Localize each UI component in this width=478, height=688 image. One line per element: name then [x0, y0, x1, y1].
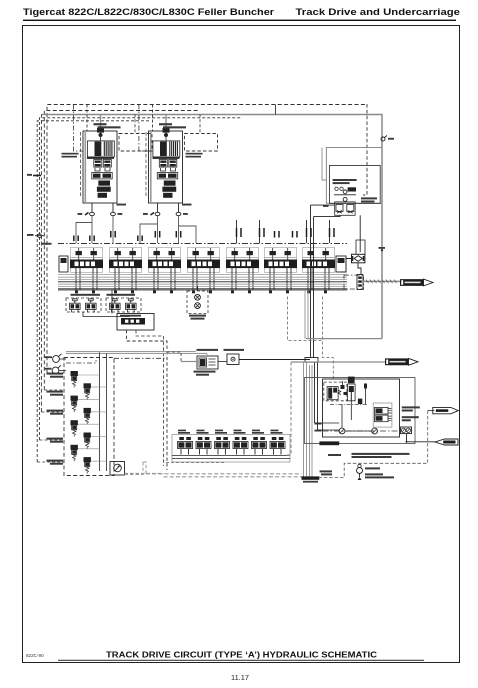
wire: dashed feed elbow	[167, 352, 181, 362]
pump outer enclosure	[305, 378, 416, 444]
wire: relief riser staple	[356, 240, 365, 254]
wire: dashed step at aux row bottom	[166, 462, 226, 464]
gallery lines (black)	[58, 282, 347, 290]
manifold solenoid valve 3	[71, 396, 78, 412]
tank black label	[302, 476, 320, 479]
wire: gray return elbow	[306, 338, 382, 340]
bottom title underline	[58, 659, 424, 662]
pump 1B circle	[372, 428, 378, 434]
wire: LH motor port C2 down to valve bank	[91, 216, 93, 243]
label compensator	[402, 406, 420, 421]
wire: manifold drain link (gray dashed)	[125, 473, 164, 475]
flag: to cooler (white arrow)	[433, 407, 459, 413]
wire: supply drop to LH motor top	[100, 115, 102, 129]
aux valve 1	[178, 437, 193, 455]
main control valve bank top rail	[58, 243, 347, 245]
pump control spool	[327, 387, 341, 400]
pilot return riser (dashed)	[40, 115, 42, 413]
wire: dashed return drop right	[319, 411, 427, 478]
wire: riser to LH motor	[86, 105, 88, 132]
svg-text:TRACK DRIVE CIRCUIT (TYPE ‘A’): TRACK DRIVE CIRCUIT (TYPE ‘A’) HYDRAULIC…	[106, 651, 377, 660]
wire: return risers bank to pump (black)	[311, 205, 318, 430]
hose fittings on bank inlet	[74, 228, 334, 241]
rear pilot valve box (dashed)	[106, 298, 141, 312]
bottom auxiliary valve row labels	[178, 430, 283, 434]
aux valve 3	[215, 437, 230, 455]
label case drain	[320, 470, 333, 472]
label two-speed below	[194, 371, 216, 373]
svg-text:Tigercat 822C/L822C/830C/L830C: Tigercat 822C/L822C/830C/L830C Feller Bu…	[23, 7, 274, 18]
label pump sections	[315, 423, 322, 425]
manifold solenoid valve 8	[84, 457, 91, 473]
test fitting on pilot riser	[27, 174, 41, 176]
label LH track drive type	[62, 153, 79, 155]
valve section 6	[264, 248, 297, 294]
case drain bus (dashed)	[37, 121, 150, 462]
wire: pilot-op valve left drop A	[311, 204, 335, 206]
label breather	[365, 467, 394, 478]
label pump note lines	[328, 453, 410, 458]
wire: pump internal links	[315, 401, 372, 431]
valve section 2	[109, 248, 142, 294]
manifold cross links	[78, 375, 107, 461]
valve section 1	[70, 248, 103, 294]
wire: manifold link to center drop (dash-dot)	[114, 357, 167, 359]
wire: orifice to pump circuit	[239, 359, 310, 361]
shuttle check stack (dashed box)	[187, 291, 208, 314]
wire: bus jog junction	[275, 105, 277, 115]
gauge port circle 1	[53, 356, 60, 363]
wire: pilot-op valve drop to outlet	[359, 215, 361, 252]
aux row collector lines	[172, 455, 290, 457]
label LH motor	[94, 123, 107, 125]
LH track drive motor assembly	[78, 128, 127, 216]
svg-text:Track Drive and Undercarriage: Track Drive and Undercarriage	[296, 7, 461, 18]
leveling valve spool	[121, 318, 145, 325]
header rule	[23, 20, 456, 21]
manifold bottom port circle	[110, 462, 125, 476]
drain bus (dashed)	[39, 118, 241, 440]
brake release bus (dashed)	[44, 111, 200, 391]
manifold solenoid valve 4	[84, 408, 91, 424]
wire: elbow to section 5	[179, 226, 197, 243]
wire: LH motor port C1 down to valve bank	[112, 216, 114, 243]
gauge port circle 2	[52, 367, 59, 374]
gauge pair block at pump outlet	[401, 427, 412, 434]
label RH motor	[159, 123, 172, 125]
suction header block	[305, 358, 318, 363]
servo piston stack	[348, 377, 356, 401]
relief valve on outlet	[352, 254, 365, 262]
wire: risers into remaining sections	[237, 220, 330, 243]
pressure compensator pair	[373, 403, 392, 427]
manifold solenoid valve 5	[71, 420, 78, 436]
pump case black label	[319, 441, 339, 445]
rear pilot valve wand B	[126, 299, 137, 313]
pump shaft (dash-dot)	[323, 430, 401, 432]
quick coupler on riser	[27, 234, 52, 245]
label front pilot valve	[71, 294, 101, 296]
wire: brake line into LH motor (dash-dot)	[73, 105, 83, 152]
wire: tank return line to flag (gray)	[363, 280, 400, 282]
pilot manifold enclosure (dashed)	[64, 358, 114, 476]
two-speed valve label	[197, 349, 219, 351]
wire: elbow to section 1	[76, 223, 92, 244]
wire: pilot boxes link bar	[83, 312, 130, 317]
wire: riser to RH motor	[152, 105, 154, 132]
label RH track drive type	[186, 153, 203, 155]
pilot supply bus (dashed)	[47, 105, 367, 374]
flag: to tank (dark arrow)	[400, 279, 433, 286]
manifold top feed line	[66, 360, 96, 363]
front pilot valve wand A	[70, 299, 81, 313]
valve section 4	[187, 248, 220, 294]
wire: white flag tail	[428, 410, 435, 412]
wire: pilot-op valve left drop B	[314, 215, 341, 216]
label near junction	[379, 247, 386, 249]
rear pilot valve wand A	[110, 299, 121, 313]
wire: RH motor port C2 down to valve bank	[157, 216, 159, 243]
bank left end cap	[59, 256, 68, 272]
aux valve 4	[233, 437, 248, 455]
wire: two-speed to orifice	[218, 361, 227, 363]
wire: feed to two-speed	[181, 361, 197, 363]
label pilot-op valve	[333, 179, 357, 181]
aux valve 2	[196, 437, 211, 455]
leveling valve box	[117, 314, 154, 331]
wire: leveling box feed	[111, 290, 113, 314]
wire: RH motor port C1 down to valve bank	[178, 216, 180, 243]
label relief setting	[361, 197, 377, 199]
wire: stack stem	[197, 286, 199, 291]
wire: left bus taps into manifold	[37, 373, 64, 462]
wire: gray supply drop (dashed)	[285, 362, 291, 455]
manifold solenoid valve 7	[71, 445, 78, 461]
wire: dashed drop left of aux row	[143, 462, 146, 474]
LH speed solenoid valve box (dashed)	[119, 134, 152, 152]
label rear pilot valve	[107, 294, 136, 296]
main pressure line (gray)	[41, 115, 382, 339]
RH track drive motor assembly	[143, 128, 192, 216]
pump 1A circle	[339, 428, 345, 434]
breather symbol	[357, 464, 363, 480]
label port rows	[47, 373, 64, 465]
pilot-op valve cluster	[334, 187, 356, 201]
wire: gauge stems	[59, 358, 66, 360]
RH speed solenoid valve box (dashed)	[185, 134, 218, 152]
wire: pump outlet to left flag	[407, 434, 436, 442]
two-speed valve	[197, 356, 218, 369]
svg-text:11.17: 11.17	[231, 673, 249, 682]
wire: relief valve loop	[341, 259, 352, 273]
outlet port bar	[357, 275, 363, 290]
front pilot valve wand B	[86, 299, 97, 313]
wire: dashed branch down center	[136, 330, 164, 466]
manifold solenoid valve 6	[84, 433, 91, 449]
label gauge port 1	[45, 356, 53, 358]
manifold internal rail A	[99, 352, 101, 471]
pump control dashed box	[324, 382, 347, 401]
valve section 7	[302, 248, 335, 294]
wire: dashed drop from leveling valve	[127, 330, 168, 470]
junction on pressure riser	[381, 249, 383, 251]
wire: supply drop to RH motor top	[165, 115, 167, 129]
wire: dashed tap of return	[288, 297, 323, 341]
wire: LH solenoid box riser	[134, 114, 136, 133]
gallery lines (gray)	[58, 275, 347, 287]
wire: brake line into RH motor (dash-dot)	[139, 105, 149, 152]
bank right end cap	[336, 256, 346, 272]
front pilot valve box (dashed)	[66, 298, 101, 312]
wire: enclosure left riser	[322, 148, 326, 181]
aux valve 5	[252, 437, 267, 455]
outlet manifold (dash-dot box)	[344, 275, 364, 289]
valve section 3	[148, 248, 181, 294]
manifold internal rail B	[106, 353, 108, 471]
wire: elbow to section 3	[140, 224, 158, 243]
pump small port marks	[358, 399, 362, 405]
bottom auxiliary valve row frame	[172, 435, 290, 463]
manifold solenoid valve 1	[71, 371, 78, 387]
wire: relief to return bar	[358, 263, 361, 275]
wire: manifold supply pair (gray)	[66, 351, 196, 353]
flag: from tank (left point arrow)	[435, 439, 458, 445]
label shuttle stack	[189, 315, 206, 317]
pump control extra marks	[341, 384, 368, 396]
pilot-operated valve outer enclosure	[326, 148, 382, 204]
orifice label	[224, 349, 245, 351]
wire: dashed riser to pilot-op valve	[363, 104, 367, 195]
check valve lower	[195, 303, 201, 309]
test fitting on pressure line	[381, 136, 394, 142]
wire: RH solenoid box riser	[199, 114, 201, 133]
aux row return bus (gray dashed)	[146, 473, 302, 475]
label port C4	[323, 205, 329, 207]
pilot-op lower valve pair	[335, 202, 355, 215]
check valve upper	[195, 294, 201, 300]
flag: case drain (dark arrow)	[385, 358, 418, 365]
pump enclosure	[323, 379, 400, 437]
svg-text:822C-90: 822C-90	[26, 653, 44, 658]
orifice block	[227, 354, 239, 365]
label gauge port 2	[44, 368, 52, 370]
pilot-operated valve inner enclosure	[330, 165, 381, 203]
wire: case drain risers (gray)	[304, 290, 313, 477]
aux valve 6	[270, 437, 285, 455]
valve section 5	[226, 248, 259, 294]
manifold solenoid valve 2	[84, 383, 91, 399]
